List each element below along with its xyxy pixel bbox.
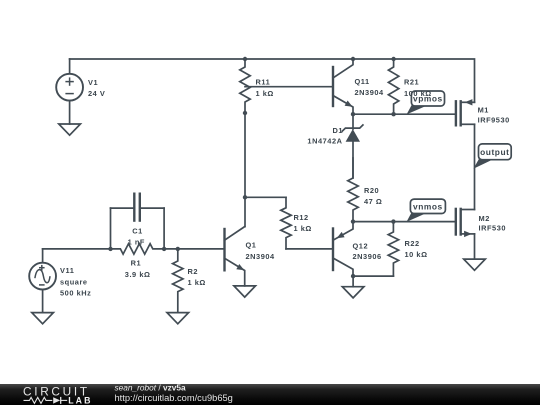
CircuitLab logo	[23, 384, 93, 405]
wire R1 to Q1 base	[164, 248, 224, 250]
wire vnmos node: R20 bottom to M2 gate	[353, 221, 456, 223]
svg-text:10 kΩ: 10 kΩ	[405, 250, 428, 259]
svg-text:Q11: Q11	[355, 77, 370, 86]
svg-text:47 Ω: 47 Ω	[364, 197, 382, 206]
transistor Q1 2N3904	[225, 227, 276, 286]
wire R12 bottom to Q12 base	[286, 248, 333, 250]
svg-text:2N3906: 2N3906	[353, 252, 382, 261]
wire input node: V11 to C1/R1	[43, 248, 111, 250]
transistor Q11 2N3904	[333, 59, 384, 114]
svg-text:R1: R1	[131, 259, 142, 268]
svg-text:R11: R11	[256, 78, 271, 87]
voltage source V11 square 500kHz	[29, 249, 91, 313]
resistor R12 1k	[281, 197, 312, 249]
ground below M2	[464, 259, 486, 270]
svg-text:LAB: LAB	[68, 396, 92, 405]
wire node to R12 top	[245, 196, 286, 198]
svg-text:R2: R2	[188, 267, 199, 276]
svg-text:1N4742A: 1N4742A	[307, 136, 342, 145]
svg-text:M1: M1	[478, 106, 489, 115]
label flag vnmos	[407, 199, 446, 222]
footer credit text	[115, 382, 233, 403]
svg-text:1 kΩ: 1 kΩ	[256, 89, 274, 98]
ground below Q1	[234, 286, 256, 297]
wire Q12 collector to ground	[352, 276, 354, 287]
svg-text:R20: R20	[364, 186, 379, 195]
svg-text:http://circuitlab.com/cu9b65g: http://circuitlab.com/cu9b65g	[115, 393, 233, 403]
pmos M1 IRF9530	[456, 99, 510, 125]
resistor R1 3.9k	[111, 244, 165, 279]
svg-text:1 kΩ: 1 kΩ	[294, 224, 312, 233]
svg-text:100 kΩ: 100 kΩ	[404, 89, 432, 98]
ground below Q12	[342, 287, 364, 298]
svg-text:R12: R12	[294, 213, 309, 222]
footer bar	[0, 384, 540, 405]
svg-text:Q1: Q1	[246, 241, 257, 250]
svg-text:2N3904: 2N3904	[246, 252, 276, 261]
svg-text:Q12: Q12	[353, 242, 369, 251]
wire vpmos node: Q11 emitter to M1 gate	[353, 113, 456, 115]
ground below V1	[59, 124, 81, 135]
wire M1 drain to M2 drain (output net)	[474, 124, 476, 209]
ground below R2	[167, 313, 189, 324]
resistor R22 10k	[388, 222, 427, 277]
svg-text:M2: M2	[479, 214, 490, 223]
svg-text:1 kΩ: 1 kΩ	[188, 278, 206, 287]
transistor Q12 2N3906	[333, 222, 382, 277]
ground below V11	[32, 313, 54, 324]
svg-text:500 kHz: 500 kHz	[60, 289, 91, 298]
svg-text:IRF9530: IRF9530	[478, 115, 510, 124]
svg-text:R21: R21	[404, 78, 419, 87]
wire top rail from V1 to M1 source	[70, 59, 475, 102]
label R21 value over flag	[404, 89, 432, 98]
label flag output	[473, 144, 511, 169]
wire R11 bottom down to Q1 collector	[244, 113, 246, 227]
svg-text:V1: V1	[88, 78, 98, 87]
svg-text:2N3904: 2N3904	[355, 88, 385, 97]
resistor R2 1k	[173, 249, 206, 313]
nmos M2 IRF530	[456, 209, 506, 259]
svg-text:IRF530: IRF530	[479, 224, 507, 233]
svg-text:V11: V11	[60, 266, 74, 275]
svg-text:C1: C1	[132, 227, 143, 236]
voltage source V1 24V	[56, 59, 105, 124]
svg-text:output: output	[480, 147, 509, 157]
svg-text:vnmos: vnmos	[413, 202, 443, 212]
resistor R20 47ohm	[348, 158, 383, 222]
zener diode D1 1N4742A	[307, 114, 362, 178]
capacitor C1 1nF	[111, 194, 165, 249]
wire R22 bottom to Q12 collector	[353, 275, 393, 277]
svg-text:sean_robot / vzv5a: sean_robot / vzv5a	[115, 382, 186, 392]
resistor R21 100k	[388, 59, 419, 114]
wire R11 mid node to Q11 base	[245, 86, 333, 88]
svg-text:square: square	[60, 277, 88, 286]
svg-text:D1: D1	[332, 126, 343, 135]
resistor R11 1k	[240, 59, 274, 113]
svg-text:R22: R22	[405, 239, 420, 248]
svg-text:3.9 kΩ: 3.9 kΩ	[125, 270, 151, 279]
label flag vpmos	[407, 91, 445, 114]
svg-text:24 V: 24 V	[88, 89, 105, 98]
